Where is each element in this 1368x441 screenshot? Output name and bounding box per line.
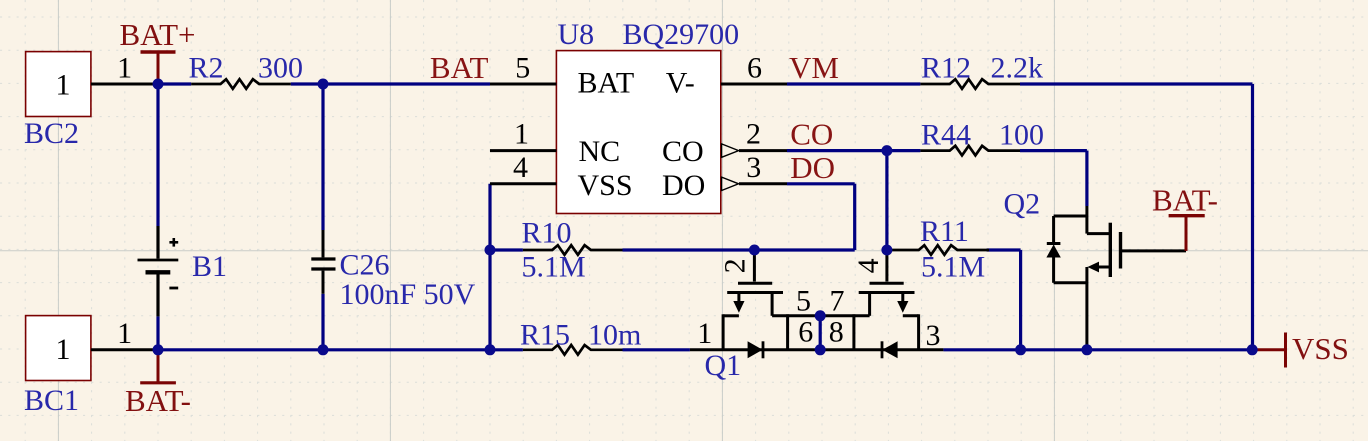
svg-text:R44: R44 [921,119,971,152]
wire C26 to bottom rail [321,294,324,350]
wire R44 to Q2 drain corner [1020,149,1087,152]
wire R15 to Q1 pin 1 [623,348,690,351]
svg-text:Q1: Q1 [705,349,742,382]
resistor R2 300 [191,79,291,89]
junction BAT+ node [153,79,164,90]
wire R12 to right edge [1020,82,1253,85]
svg-text:5.1M: 5.1M [921,251,985,284]
pin 1 of BC1 [91,348,158,351]
wire Q1 pin 3 to VSS node [943,348,1252,351]
svg-text:Q2: Q2 [1004,188,1041,221]
wire DO down [853,184,856,250]
svg-text:1: 1 [514,118,529,151]
svg-text:R11: R11 [920,215,969,248]
svg-text:8: 8 [829,316,844,349]
svg-text:U8: U8 [558,18,595,51]
wire right vertical down to VSS rail [1251,84,1254,350]
svg-text:10m: 10m [588,319,641,352]
junction CO net [881,145,892,156]
svg-text:BAT+: BAT+ [119,17,195,52]
svg-text:2: 2 [718,258,751,273]
svg-text:2: 2 [746,118,761,151]
svg-text:1: 1 [56,333,71,366]
wire junction to R10 [490,248,523,251]
resistor R15 10m [523,345,623,355]
resistor R10 5.1M [523,245,623,255]
junction BAT- node [153,344,164,355]
connector BC1 [26,316,91,381]
svg-text:CO: CO [662,135,704,168]
svg-text:1: 1 [117,317,132,350]
svg-text:BC1: BC1 [24,384,79,417]
pin 6 V- of U8 [721,83,787,86]
wire R2 to U8 BAT pin (net BAT) [291,82,490,85]
svg-text:BAT: BAT [430,50,489,85]
svg-text:1: 1 [117,52,132,85]
resistor R12 2.2k [920,79,1020,89]
svg-text:4: 4 [852,258,885,273]
svg-text:BAT-: BAT- [125,383,191,418]
svg-text:6: 6 [798,316,813,349]
svg-text:2.2k: 2.2k [991,52,1044,85]
svg-text:R12: R12 [921,52,971,85]
junction Q1 gate 2 [749,245,760,256]
IC U8 BQ29700 [556,51,720,214]
wire Q1 common drain to rail [819,316,822,350]
battery B1 [138,226,179,316]
wire VSS pin down to bottom rail [488,184,491,350]
svg-text:7: 7 [830,285,845,318]
svg-text:DO: DO [662,169,705,202]
transistor Q2 P-MOSFET body [1046,206,1186,350]
junction Q1 drain to rail [815,344,826,355]
connector BC2 [26,52,91,117]
wire B1 to BAT- node [156,316,159,349]
wire CO junction down to Q1 gate 4 [885,151,888,250]
svg-text:3: 3 [746,151,761,184]
svg-text:4: 4 [513,151,528,184]
wire R11 down to bottom rail [1019,250,1022,350]
wire bottom rail BAT- to R15 [158,348,523,351]
junction bottom rail x490 [485,344,496,355]
junction Q1 common drain [815,310,826,321]
junction R2/C26 top [318,79,329,90]
junction R10 left [485,245,496,256]
pin 5 BAT of U8 [490,83,556,86]
resistor R44 100 [920,146,1020,156]
wire VM net: pin V- to R12 [787,82,920,85]
svg-text:VSS: VSS [578,169,633,202]
junction Q2 source to rail [1081,344,1092,355]
wire DO net: pin DO rightward [787,182,855,185]
power port BAT+ [119,17,195,84]
power port VSS [1253,331,1349,368]
svg-text:1: 1 [697,317,712,350]
svg-text:V-: V- [666,67,695,100]
svg-text:BAT-: BAT- [1152,183,1218,218]
svg-text:3: 3 [926,319,941,352]
wire DO to Q1 gate 2 junction [754,248,854,251]
svg-text:BQ29700: BQ29700 [623,18,740,51]
svg-text:100nF 50V: 100nF 50V [340,278,476,311]
pin 2 CO of U8 with output triangle [722,144,787,157]
wire R11 rightward [987,248,1021,251]
wire CO net: pin CO to junction [787,149,887,152]
wire down to Q2 drain [1085,151,1088,206]
junction R11 to rail [1015,344,1026,355]
svg-text:1: 1 [56,69,71,102]
svg-text:BAT: BAT [578,67,635,100]
svg-text:B1: B1 [192,250,227,283]
svg-text:6: 6 [747,52,762,85]
pin 1 of BC2 [91,83,158,86]
svg-text:DO: DO [790,150,835,185]
junction bottom rail x323 [318,344,329,355]
svg-text:C26: C26 [340,249,390,282]
svg-text:5: 5 [796,285,811,318]
svg-text:5.1M: 5.1M [522,251,586,284]
svg-text:CO: CO [790,117,833,152]
svg-text:BC2: BC2 [24,117,79,150]
pin 1 NC of U8 [490,149,556,152]
capacitor C26 [311,230,335,294]
svg-text:R2: R2 [189,52,224,85]
resistor R11 5.1M [889,245,989,255]
svg-text:5: 5 [515,52,530,85]
wire BAT+ node to R2 [158,82,191,85]
svg-text:VM: VM [789,50,839,85]
wire BAT+ node down to B1 [156,84,159,226]
wire CO junction to R44 [887,149,921,152]
transistor Q1 dual N-MOSFET body [690,250,944,358]
junction Q1 gate 4 [881,245,892,256]
svg-text:VSS: VSS [1292,331,1349,366]
svg-text:NC: NC [579,135,621,168]
wire R10 to gate junction [623,248,755,251]
wire top rail down to C26 [321,84,324,230]
svg-text:R10: R10 [522,217,572,250]
power port BAT- at Q2 gate [1152,183,1218,251]
power port BAT- bottom [125,350,191,418]
junction VSS node [1247,344,1258,355]
svg-text:300: 300 [258,52,303,85]
svg-text:100: 100 [999,119,1044,152]
pin 4 VSS of U8 [490,182,556,185]
pin 3 DO of U8 with output triangle [722,177,787,190]
svg-text:R15: R15 [520,319,570,352]
